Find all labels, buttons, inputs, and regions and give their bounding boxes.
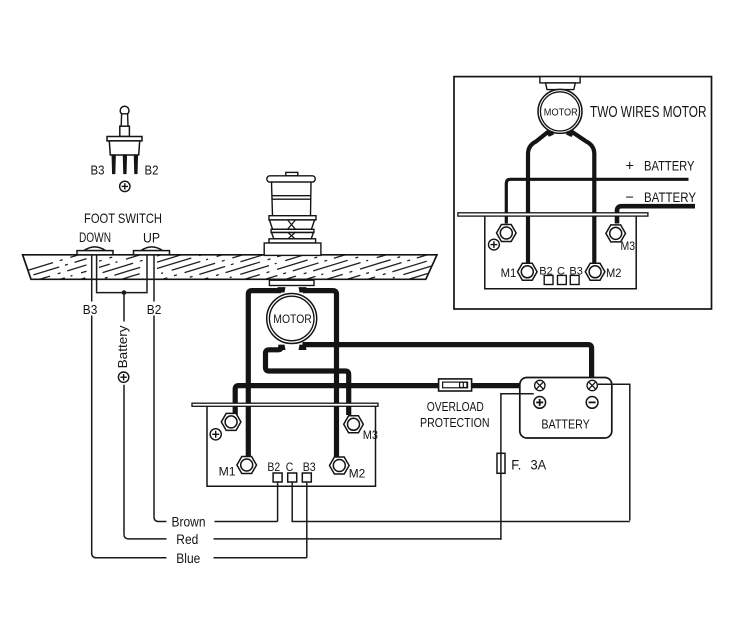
wire battery plus through fuse to red line [501,394,534,540]
svg-text:Red: Red [176,532,198,547]
svg-text:C: C [286,460,294,474]
svg-text:B3: B3 [303,460,316,474]
svg-text:Blue: Blue [176,551,200,566]
svg-text:FOOT SWITCH: FOOT SWITCH [84,211,162,226]
svg-text:OVERLOAD: OVERLOAD [427,399,484,414]
svg-text:B3: B3 [91,163,105,177]
svg-text:MOTOR: MOTOR [273,314,312,326]
battery minus terminal screw [587,380,597,390]
deck (hatched board) [0,254,534,283]
foot switch UP [134,247,170,255]
svg-text:MOTOR: MOTOR [544,107,578,119]
svg-text:−: − [626,190,634,206]
winch drum [264,172,321,255]
inset terminal B3 square [570,275,579,284]
inset motor [538,89,582,137]
toggle switch [107,106,142,173]
inset thick wire motor to M2 [572,132,595,263]
svg-text:B2: B2 [267,460,280,474]
terminal M1 hex [237,457,257,474]
screw symbol battery wire [118,372,128,382]
wire B3 from DOWN switch [91,255,93,553]
wire battery from junction [123,293,125,535]
svg-text:M2: M2 [606,268,622,280]
wire battery minus to C line [598,384,630,520]
screw symbol under toggle [120,181,130,191]
thick wire motor to M2 [303,291,337,458]
motor M main [267,287,317,350]
wire B2 from UP switch [153,255,155,517]
svg-text:Battery: Battery [115,325,130,369]
svg-text:PROTECTION: PROTECTION [420,415,490,430]
inset terminal M3 hex [606,225,626,242]
fuse F 3A [497,453,505,473]
wire stub B2 square [277,482,279,522]
inset thick wire motor to M1 [528,132,549,263]
svg-text:B2: B2 [147,302,162,317]
svg-text:Brown: Brown [172,515,206,530]
terminal B3 square [302,473,311,482]
svg-text:M3: M3 [621,241,636,253]
svg-text:M3: M3 [363,428,378,442]
wire blue line [92,553,307,558]
thick wire solenoid plus to overload to battery plus [235,386,533,416]
terminal M2 hex [330,457,350,474]
solenoid box [207,406,376,486]
inset wire plus battery [506,179,688,223]
inset terminal M1 hex [518,263,538,280]
wire connector between switches [97,291,147,294]
inset wire minus battery [617,206,695,223]
inset solenoid box [485,216,636,289]
wire DOWN inner to junction [96,255,98,292]
svg-text:TWO WIRES MOTOR: TWO WIRES MOTOR [590,104,707,121]
inset motor bracket [540,77,580,90]
inset screw symbol plus [489,239,500,250]
foot switch DOWN [77,247,113,255]
svg-text:BATTERY: BATTERY [644,157,695,173]
svg-text:UP: UP [143,231,160,246]
battery plus symbol [534,397,546,409]
inset terminal M2 hex [585,263,605,280]
terminal C square [288,473,297,482]
svg-text:M1: M1 [501,268,517,280]
thick wire motor to M3 [266,345,349,415]
svg-text:B3: B3 [83,302,98,317]
battery plus terminal screw [535,380,545,390]
svg-text:F.: F. [511,458,521,473]
svg-text:B2: B2 [145,163,159,177]
inset terminal B2 square [544,275,553,284]
wire stub B3 square [306,482,308,558]
svg-text:DOWN: DOWN [79,230,111,245]
wire red line [124,534,501,539]
svg-text:M1: M1 [219,464,236,478]
thick wire motor to battery minus [303,345,592,380]
battery box [520,378,612,439]
svg-text:+: + [626,158,634,174]
terminal B2 square [273,473,282,482]
motor mount under deck [269,280,314,285]
screw symbol solenoid plus [210,429,221,440]
solenoid mounting plate [192,403,378,406]
overload fuse [439,379,472,391]
svg-text:M2: M2 [349,467,366,481]
wire stub C square [292,482,630,522]
terminal plus hex [221,413,241,430]
thick wire motor to M1 [248,291,281,457]
inset frame box [454,77,712,309]
battery minus symbol [586,397,598,409]
inset terminal plus hex [497,225,517,242]
inset terminal C square [558,275,567,284]
terminal M3 hex [344,416,364,433]
svg-text:3A: 3A [531,458,547,473]
wire UP inner to junction [146,255,148,292]
junction dot [122,290,127,295]
svg-text:BATTERY: BATTERY [644,189,697,205]
svg-text:BATTERY: BATTERY [541,416,590,431]
wire brown line [154,517,278,522]
inset mounting plate [458,213,648,216]
